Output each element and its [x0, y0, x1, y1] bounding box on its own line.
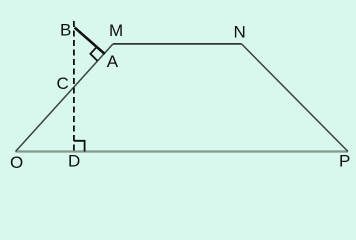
right-angle marker at A: [90, 46, 97, 61]
wire: top edge M-N: [113, 43, 242, 45]
svg-text:C: C: [57, 74, 69, 93]
svg-text:N: N: [234, 22, 246, 41]
svg-text:P: P: [339, 151, 350, 170]
wire: segment B-A: [75, 28, 105, 55]
right-angle marker at D: [74, 141, 85, 152]
wire: left side O-M: [16, 44, 114, 152]
svg-text:A: A: [107, 52, 119, 71]
svg-text:O: O: [10, 153, 23, 172]
wire: dashed altitude B-D: [73, 21, 75, 152]
wire: bottom edge O-P: [16, 150, 349, 152]
wire: right side N-P: [242, 44, 349, 152]
svg-text:D: D: [68, 152, 80, 171]
svg-text:B: B: [60, 21, 71, 40]
svg-text:M: M: [109, 21, 123, 40]
